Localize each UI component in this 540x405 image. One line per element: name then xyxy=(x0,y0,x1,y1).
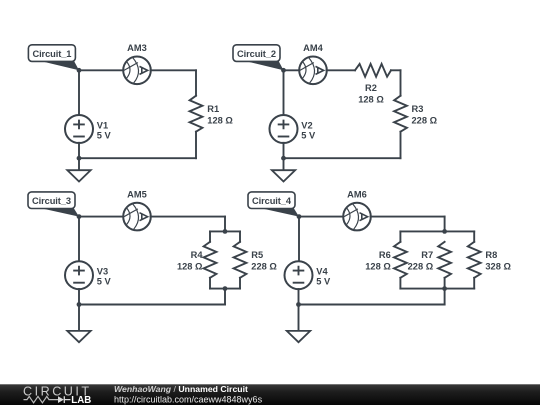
node xyxy=(77,68,82,73)
wire xyxy=(283,143,285,158)
node xyxy=(281,68,286,73)
svg-text:AM3: AM3 xyxy=(127,43,147,53)
wire xyxy=(78,143,80,158)
net flag Circuit_4 xyxy=(248,192,299,217)
ammeter AM5 xyxy=(123,203,151,231)
wire xyxy=(239,231,241,241)
wire top bar xyxy=(210,230,240,232)
svg-text:AM5: AM5 xyxy=(127,189,147,199)
wire xyxy=(283,70,285,115)
ammeter AM6 xyxy=(343,203,371,231)
svg-text:128 Ω: 128 Ω xyxy=(358,94,384,104)
node xyxy=(77,156,82,161)
wire xyxy=(299,216,344,218)
CircuitLab logo xyxy=(23,385,92,405)
resistor R5 xyxy=(234,242,247,278)
resistor R3 xyxy=(394,96,407,132)
wire xyxy=(399,278,401,289)
svg-text:R5: R5 xyxy=(251,250,263,260)
svg-text:Circuit_2: Circuit_2 xyxy=(237,49,276,59)
wire xyxy=(151,216,226,218)
wire xyxy=(444,278,446,289)
ground xyxy=(287,305,310,343)
resistor R8 xyxy=(468,242,481,278)
ground xyxy=(272,158,295,181)
wire xyxy=(78,289,80,305)
svg-text:128 Ω: 128 Ω xyxy=(207,115,233,125)
wire xyxy=(239,278,241,289)
resistor R4 xyxy=(204,242,217,278)
svg-text:Circuit_4: Circuit_4 xyxy=(252,196,292,206)
node xyxy=(281,156,286,161)
voltage source V3 xyxy=(65,261,93,289)
wire xyxy=(284,157,401,159)
svg-text:V4: V4 xyxy=(316,267,328,277)
svg-text:128 Ω: 128 Ω xyxy=(365,262,391,272)
net flag Circuit_1 xyxy=(28,45,79,71)
svg-text:LAB: LAB xyxy=(71,395,91,405)
node xyxy=(296,302,301,307)
resistor R2 xyxy=(355,64,391,77)
wire xyxy=(298,289,300,305)
svg-text:V1: V1 xyxy=(97,120,108,130)
voltage source V1 xyxy=(65,115,93,143)
svg-text:Circuit_3: Circuit_3 xyxy=(32,196,71,206)
resistor R1 xyxy=(190,96,203,132)
voltage source V2 xyxy=(270,115,298,143)
svg-text:228 Ω: 228 Ω xyxy=(408,262,434,272)
voltage source V4 xyxy=(285,261,313,289)
wire xyxy=(224,289,226,305)
ammeter AM3 xyxy=(123,57,151,85)
wire xyxy=(195,70,197,95)
wire xyxy=(327,69,356,71)
svg-text:5 V: 5 V xyxy=(316,277,331,287)
svg-text:228 Ω: 228 Ω xyxy=(251,262,277,272)
svg-text:V2: V2 xyxy=(301,120,312,130)
wire xyxy=(79,216,124,218)
node xyxy=(77,302,82,307)
wire xyxy=(371,216,445,218)
svg-text:V3: V3 xyxy=(97,267,108,277)
wire xyxy=(284,69,300,71)
node xyxy=(77,214,82,219)
net flag Circuit_2 xyxy=(233,45,284,71)
wire xyxy=(298,217,300,262)
wire xyxy=(400,70,402,95)
resistor R6 xyxy=(394,242,407,278)
wire xyxy=(79,69,124,71)
wire xyxy=(151,69,197,71)
wire xyxy=(195,132,197,159)
wire xyxy=(391,69,401,71)
svg-text:R3: R3 xyxy=(412,104,424,114)
svg-text:AM6: AM6 xyxy=(347,189,367,199)
wire xyxy=(444,289,446,305)
ground xyxy=(67,305,90,343)
wire xyxy=(473,278,475,289)
footer bar xyxy=(0,384,540,405)
resistor R7 xyxy=(438,242,451,278)
wire xyxy=(78,70,80,115)
wire xyxy=(79,157,196,159)
svg-text:R2: R2 xyxy=(365,83,377,93)
svg-text:R6: R6 xyxy=(379,250,391,260)
svg-text:5 V: 5 V xyxy=(97,130,112,140)
junction xyxy=(442,229,447,234)
svg-text:R1: R1 xyxy=(207,104,219,114)
wire xyxy=(473,231,475,241)
wire bottom bar xyxy=(210,288,240,290)
wire top bar xyxy=(400,230,474,232)
svg-text:R7: R7 xyxy=(421,250,433,260)
svg-text:http://circuitlab.com/caeww484: http://circuitlab.com/caeww4848wy6s xyxy=(114,394,263,404)
wire xyxy=(400,132,402,159)
wire xyxy=(299,304,445,306)
svg-text:5 V: 5 V xyxy=(301,130,316,140)
junction xyxy=(442,286,447,291)
wire xyxy=(78,217,80,262)
wire xyxy=(209,231,211,241)
net flag Circuit_3 xyxy=(28,192,79,217)
wire xyxy=(209,278,211,289)
svg-text:WenhaoWang / Unnamed Circuit: WenhaoWang / Unnamed Circuit xyxy=(114,384,248,394)
svg-text:5 V: 5 V xyxy=(97,277,112,287)
svg-text:AM4: AM4 xyxy=(303,43,323,53)
wire bottom bar xyxy=(400,288,474,290)
svg-text:R8: R8 xyxy=(485,250,497,260)
svg-text:R4: R4 xyxy=(191,250,204,260)
svg-text:328 Ω: 328 Ω xyxy=(485,262,511,272)
wire xyxy=(79,304,225,306)
junction xyxy=(223,286,228,291)
ammeter AM4 xyxy=(299,57,327,85)
ground xyxy=(67,158,90,181)
svg-text:128 Ω: 128 Ω xyxy=(177,262,203,272)
wire xyxy=(444,217,446,232)
svg-text:Circuit_1: Circuit_1 xyxy=(32,49,71,59)
wire xyxy=(224,217,226,232)
wire xyxy=(399,231,401,241)
svg-text:228 Ω: 228 Ω xyxy=(412,115,438,125)
node xyxy=(297,214,302,219)
junction xyxy=(223,229,228,234)
